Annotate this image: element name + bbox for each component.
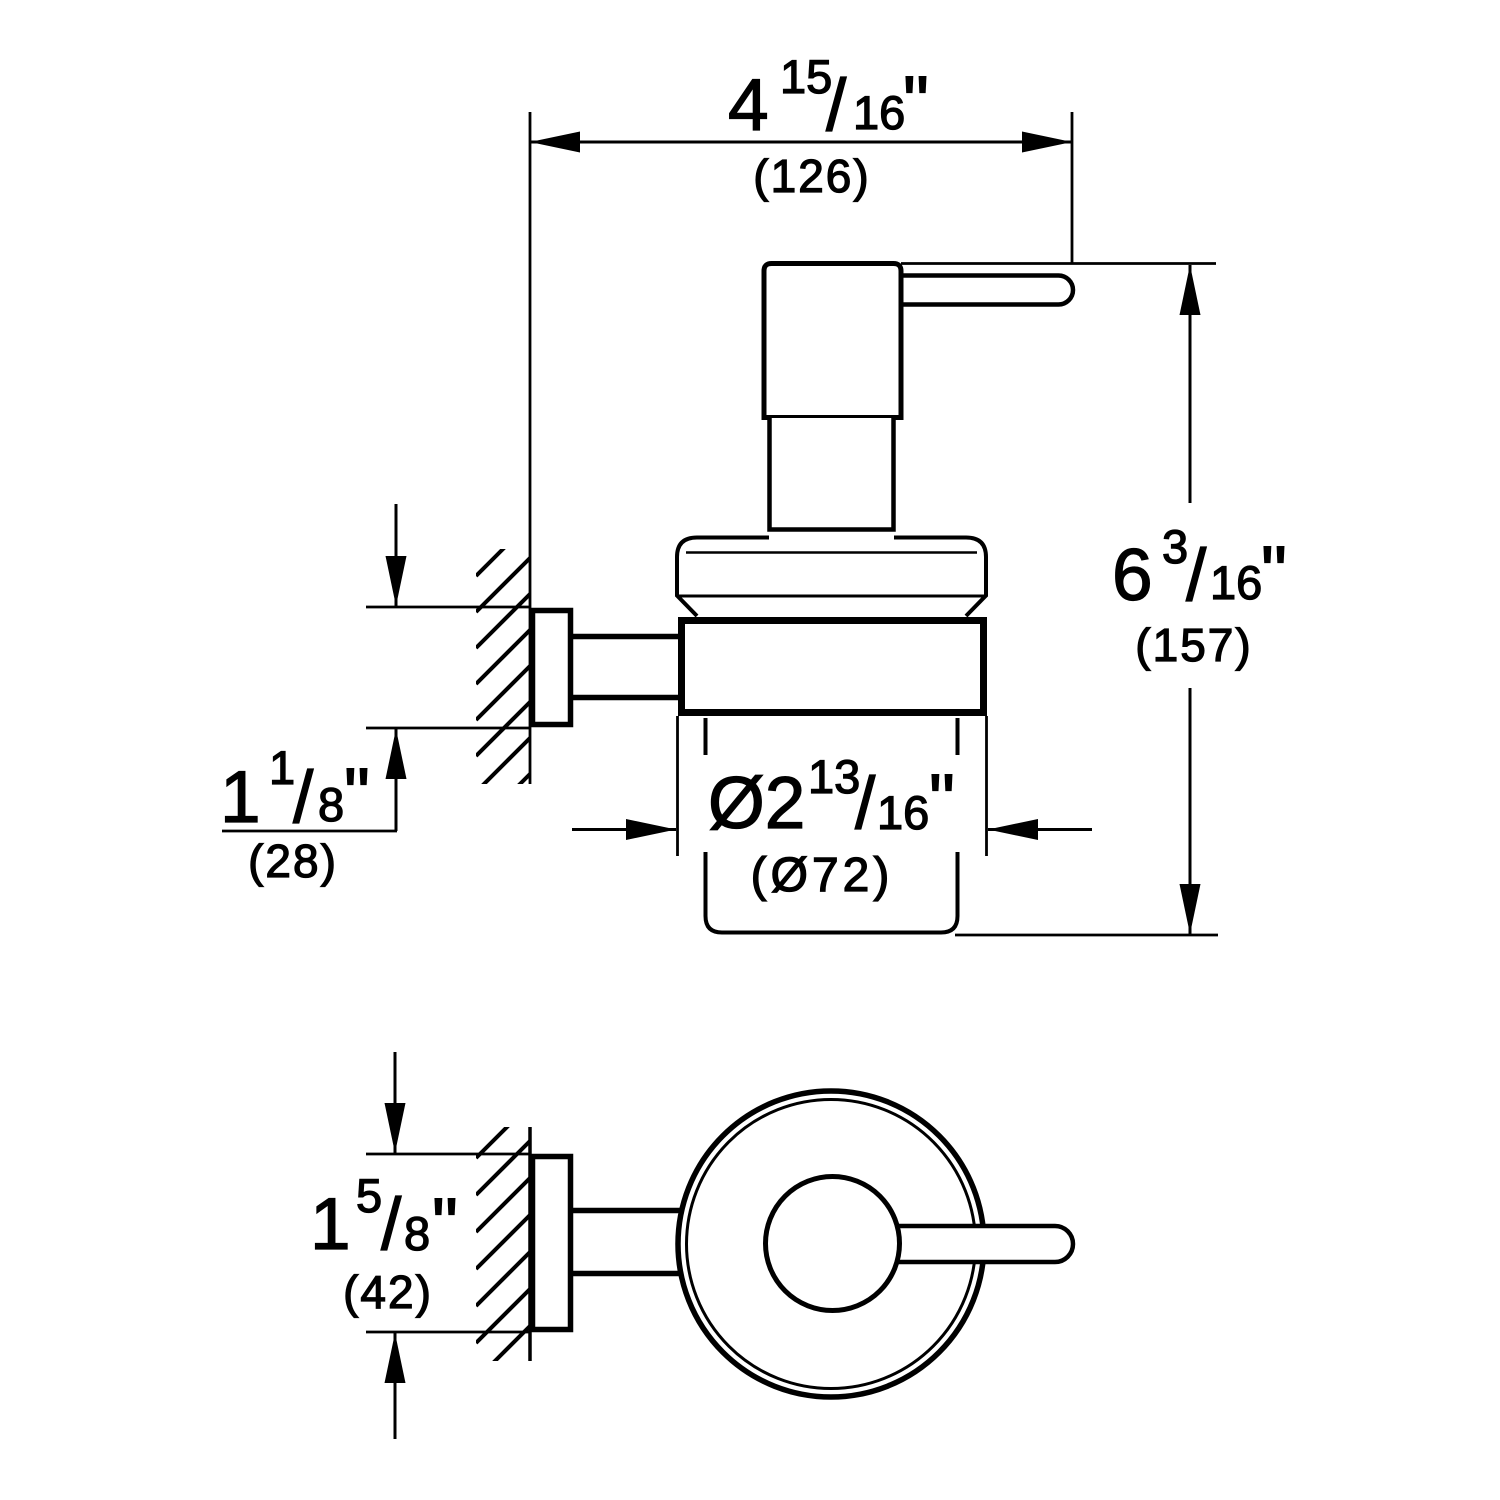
svg-text:/: / [855,763,876,844]
svg-text:/: / [293,757,314,838]
svg-text:3: 3 [1162,520,1188,573]
svg-text:(Ø72): (Ø72) [751,849,894,902]
svg-text:8: 8 [318,778,344,831]
svg-text:/: / [826,65,847,146]
svg-text:(42): (42) [343,1266,433,1318]
svg-text:": " [929,760,955,841]
svg-text:(126): (126) [753,150,870,202]
svg-text:16: 16 [853,86,905,139]
svg-text:8: 8 [404,1207,430,1260]
svg-text:4: 4 [728,65,769,146]
svg-text:16: 16 [877,786,929,839]
svg-text:1: 1 [310,1184,351,1265]
svg-text:": " [432,1184,458,1265]
svg-text:/: / [381,1184,402,1265]
svg-text:Ø2: Ø2 [708,763,805,844]
svg-text:5: 5 [356,1169,382,1222]
svg-text:13: 13 [808,750,860,803]
svg-text:": " [344,754,370,835]
svg-text:(157): (157) [1135,619,1252,671]
svg-text:(28): (28) [248,835,338,887]
svg-text:16: 16 [1210,556,1262,609]
svg-text:15: 15 [780,50,832,103]
svg-text:": " [1261,532,1287,613]
svg-text:6: 6 [1112,535,1153,616]
svg-text:": " [903,62,929,143]
svg-text:1: 1 [220,757,261,838]
svg-text:/: / [1186,535,1207,616]
svg-text:1: 1 [269,741,295,794]
